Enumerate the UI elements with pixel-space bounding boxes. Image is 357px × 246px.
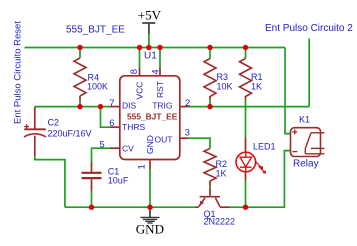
pin 5 stub [110,147,120,149]
junction pin 4 on +5V bus [157,45,162,50]
svg-text:R1: R1 [251,72,263,82]
svg-text:Ent Pulso Circuito Reset: Ent Pulso Circuito Reset [13,21,24,124]
wire OUT to R2 [189,138,211,148]
wire TRIG row [189,106,310,108]
capacitor C1 bottom pin [91,179,93,190]
wire LED to collector node [245,180,247,207]
wire THRS branch [101,107,111,128]
pin 8 stub [139,68,141,76]
svg-text:R3: R3 [217,72,229,82]
junction +5V stem on bus [146,45,151,50]
pin 4 stub [159,68,161,76]
svg-text:Ent Pulso Circuito 2: Ent Pulso Circuito 2 [265,23,353,34]
svg-text:2: 2 [185,98,190,109]
svg-text:Relay: Relay [293,158,319,169]
svg-text:U1: U1 [144,51,157,62]
capacitor C2 top pin [34,107,36,129]
capacitor C2 [24,124,46,137]
svg-text:GND: GND [136,222,164,237]
pin 7 stub [110,106,120,108]
LED LED1 [236,152,266,174]
wire pin 1 to ground bus [149,170,151,208]
svg-text:CV: CV [122,144,134,154]
svg-text:10K: 10K [217,82,233,92]
junction pin 1 on ground bus [147,205,152,210]
wire R4 top [79,48,81,59]
svg-text:RST: RST [155,81,165,98]
pin 4 wire [159,48,161,68]
svg-text:K1: K1 [299,115,310,125]
junction pin 8 on +5V bus [137,45,142,50]
wire DIS row [35,106,110,108]
wire R4 bottom [79,101,81,107]
junction R4 top on +5V bus [77,45,82,50]
resistor R3 [204,59,216,97]
junction R1 top on +5V bus [243,45,248,50]
relay K1 [291,128,325,157]
wire Ent Pulso Circuito 2 drop [308,39,310,107]
junction THRS branch on DIS row [98,104,103,109]
wire C1 to ground bus [91,191,93,208]
svg-text:OUT: OUT [155,135,173,145]
pin 3 stub [181,137,189,139]
svg-text:1: 1 [137,164,148,169]
junction R3 top on +5V bus [207,45,212,50]
resistor R3 top wire [209,48,211,59]
resistor R1 [240,59,252,97]
wire top +5V bus [25,47,286,49]
svg-text:GND: GND [145,135,155,154]
LED1 cathode pin [245,172,247,180]
pin 1 stub [149,160,151,170]
svg-text:100K: 100K [87,82,108,92]
junction LED cathode and Q1 collector [243,205,248,210]
svg-text:C2: C2 [48,118,60,128]
resistor R3 bottom pin [209,96,211,100]
svg-text:TRIG: TRIG [152,101,172,111]
junction C1 on ground bus [89,205,94,210]
wire CV row [92,148,111,162]
resistor R1 bottom pin [245,96,247,99]
svg-text:1K: 1K [216,169,227,179]
svg-text:R2: R2 [216,159,228,169]
resistor R4 bottom pin [79,96,81,101]
wire R3 bottom [209,100,211,107]
transistor Q1 [196,189,230,208]
svg-text:2N2222: 2N2222 [204,217,236,227]
junction R3 bottom on TRIG row [207,104,212,109]
wire +5V stem [148,34,150,48]
resistor R1 top wire [245,48,247,59]
pin 2 stub [181,106,189,108]
svg-text:8: 8 [129,69,140,74]
svg-text:1K: 1K [251,82,262,92]
wire collector to LED node [229,206,246,208]
pin 6 stub [110,126,120,128]
wire ground bus [65,206,196,208]
resistor R2 [204,149,216,181]
ground symbol [140,207,159,223]
resistor R2 bottom pin [209,181,211,186]
wire R1 to LED [245,99,247,138]
svg-text:LED1: LED1 [253,142,276,152]
capacitor C2 bottom pin [34,136,36,156]
svg-text:6: 6 [109,118,114,129]
svg-text:THRS: THRS [122,122,145,132]
wire R2 to Q1 base [209,186,211,190]
svg-text:3: 3 [185,128,190,139]
IC U1 555 [120,76,180,160]
svg-text:VCC: VCC [135,82,145,100]
svg-text:5: 5 [99,139,104,150]
svg-text:220uF/16V: 220uF/16V [48,129,92,139]
junction R4 bottom on DIS row [77,104,82,109]
capacitor C1 top pin [91,162,93,172]
pin 8 wire [139,48,141,68]
svg-text:555_BJT_EE: 555_BJT_EE [127,111,178,121]
svg-text:+5V: +5V [138,8,162,23]
LED1 anode pin [245,138,247,153]
wire bus to relay plus [285,48,291,134]
svg-text:10uF: 10uF [108,176,129,186]
svg-text:555_BJT_EE: 555_BJT_EE [66,25,125,36]
svg-text:7: 7 [109,98,114,109]
capacitor C1 [82,173,102,178]
svg-text:DIS: DIS [122,101,137,111]
power +5V [138,8,162,34]
wire bottom right to relay minus [246,151,291,208]
resistor R4 [74,58,86,96]
wire C2 to ground bus [35,156,65,208]
